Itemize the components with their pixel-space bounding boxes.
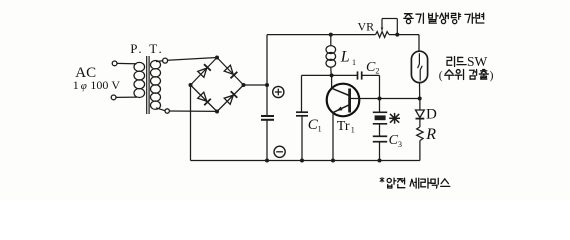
svg-text:1: 1 [318, 125, 322, 134]
wire secondary bottom to bridge bottom vertex [169, 110, 217, 112]
label L1 [340, 49, 356, 67]
wire DC plus rail vertical [265, 35, 269, 163]
svg-text:): ) [490, 70, 494, 82]
svg-text:1: 1 [351, 126, 355, 135]
node plus symbol [273, 86, 284, 97]
wire secondary top to bridge top vertex [168, 58, 217, 61]
label C1 [308, 117, 322, 134]
wire base to right [351, 97, 422, 101]
svg-text:SW: SW [467, 54, 488, 69]
svg-text:1φ100 V: 1φ100 V [73, 78, 121, 92]
svg-text:3: 3 [398, 140, 402, 149]
label R [425, 126, 436, 143]
transformer PT secondary winding [151, 60, 161, 109]
bridge diode bottom-right [224, 91, 237, 104]
label steam output variable (Korean) [404, 13, 484, 24]
transistor Tr1 [327, 84, 360, 117]
node minus symbol [274, 146, 285, 157]
variable resistor VR [376, 19, 400, 38]
AC input terminal bottom [111, 95, 116, 100]
svg-text:D: D [426, 106, 437, 122]
svg-text:2: 2 [375, 67, 379, 76]
wire reed switch to base node [419, 83, 421, 99]
svg-text:R: R [425, 126, 436, 143]
capacitor C2 [358, 71, 380, 98]
reference mark kome [389, 113, 400, 124]
bridge vertex junctions [189, 56, 246, 114]
svg-text:1: 1 [352, 58, 356, 67]
transformer P.T. label [130, 41, 162, 56]
footnote piezo ceramics (Korean) [380, 177, 450, 188]
svg-text:L: L [340, 49, 350, 66]
secondary terminal top [156, 58, 168, 63]
transformer PT core [147, 56, 149, 114]
wire collector drop [331, 75, 333, 88]
bridge diode bottom-left [198, 92, 211, 105]
label reed SW (Korean) [447, 54, 488, 69]
wire bottom rail [191, 160, 420, 162]
wire AC bottom terminal to primary [116, 96, 137, 98]
bridge diode top-left [198, 64, 211, 77]
diode D [416, 99, 425, 128]
wire oscillator node horizontal [302, 73, 358, 77]
label VR [358, 19, 375, 33]
label AC source [73, 65, 121, 92]
svg-text:VR: VR [358, 19, 375, 33]
capacitor filter (smoothing) [261, 116, 274, 120]
resistor R [417, 127, 423, 161]
wire top rail to reed switch [418, 35, 420, 52]
wire emitter drop [331, 113, 335, 162]
wire bridge minus drop [190, 85, 192, 161]
svg-text:(: ( [439, 70, 443, 82]
capacitor C3 [373, 124, 387, 163]
piezoelectric element (marked) [373, 99, 387, 124]
label Tr1 [337, 119, 355, 135]
wire bridge plus to rail [244, 84, 268, 86]
wire AC top terminal to primary [117, 62, 137, 64]
label D [426, 106, 437, 122]
bridge rectifier frame [191, 58, 244, 112]
wire top rail [267, 34, 419, 36]
reed switch SW [411, 51, 427, 82]
label C2 [366, 60, 379, 76]
inductor L1 [326, 33, 336, 76]
label C3 [389, 133, 402, 149]
AC input terminal top [112, 61, 117, 66]
secondary terminal bottom [156, 108, 169, 113]
capacitor C1 [296, 75, 308, 162]
transformer PT primary winding [134, 62, 145, 97]
label water level detect (Korean) [439, 69, 494, 82]
bridge diode top-right [224, 65, 237, 78]
svg-text:Tr: Tr [337, 119, 350, 134]
